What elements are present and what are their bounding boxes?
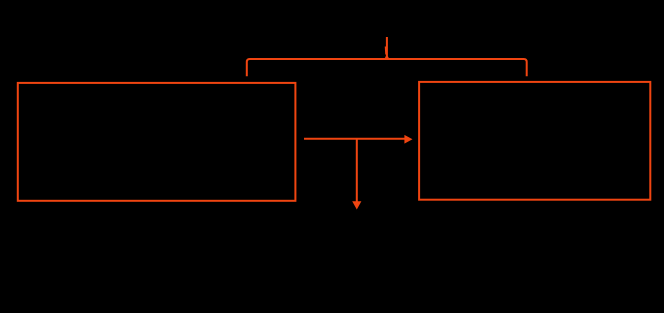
bracket center tick — [384, 37, 389, 59]
left box — [18, 83, 296, 201]
right box — [419, 82, 650, 200]
horizontal arrow — [304, 135, 413, 144]
vertical arrow — [352, 139, 361, 210]
bracket — [247, 59, 527, 76]
